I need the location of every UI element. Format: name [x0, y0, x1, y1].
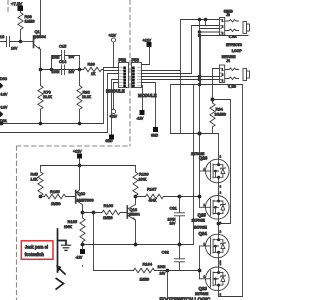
- svg-text:+12V: +12V: [143, 39, 152, 43]
- svg-text:1.5K: 1.5K: [31, 178, 39, 182]
- svg-text:Q20: Q20: [78, 191, 86, 196]
- resistor R164: [134, 262, 168, 282]
- svg-text:+12V: +12V: [73, 150, 82, 154]
- svg-text:C91: C91: [170, 206, 178, 211]
- node C14 right: [78, 68, 82, 72]
- svg-text:10V: 10V: [69, 55, 76, 59]
- node R136 Q18 R167: [134, 195, 138, 199]
- svg-text:1MEG: 1MEG: [103, 216, 113, 220]
- capacitor C91: [168, 197, 185, 245]
- svg-text:R166: R166: [104, 203, 114, 208]
- svg-text:22.1K: 22.1K: [82, 95, 92, 99]
- svg-text:R136: R136: [139, 172, 149, 177]
- zener diode D30: [0, 77, 8, 97]
- svg-text:Jack para el: Jack para el: [25, 245, 48, 250]
- wire y212 row: [83, 212, 103, 214]
- resistor R166: [102, 203, 127, 220]
- svg-text:6.8V: 6.8V: [1, 106, 9, 110]
- svg-text:1MEG: 1MEG: [51, 202, 61, 206]
- jack J3 SEND: [181, 10, 250, 39]
- wire R164 to gate node: [168, 270, 200, 272]
- wire P52 pin5 to GND: [112, 80, 119, 135]
- annotation red box footswitch: [21, 241, 53, 259]
- node bus R80: [78, 122, 82, 126]
- svg-text:GND: GND: [106, 139, 114, 143]
- resistor R45: [31, 166, 44, 197]
- svg-text:2N7002E: 2N7002E: [194, 226, 207, 230]
- svg-text:10V: 10V: [11, 47, 18, 51]
- svg-text:R69: R69: [25, 14, 33, 19]
- dashed fragment top left: [7, 0, 9, 12]
- wire base from node: [21, 41, 34, 43]
- wire Q25 source to Q24 drain: [218, 219, 220, 234]
- node Q1 base junction: [19, 40, 23, 44]
- svg-text:J3: J3: [226, 13, 230, 17]
- wire bus B y132.5: [0, 74, 119, 133]
- resistor R136: [133, 166, 149, 197]
- svg-text:100K: 100K: [64, 225, 73, 229]
- zener diode D31: [0, 106, 8, 123]
- wire J4 sleeve rail x193: [193, 85, 195, 245]
- svg-text:P52: P52: [119, 57, 127, 62]
- power +12V module: [73, 150, 82, 166]
- node rail C91 C92: [178, 243, 182, 247]
- wire Q26 source to Q25 drain: [218, 183, 220, 196]
- svg-text:C92: C92: [162, 250, 170, 255]
- svg-text:-12V: -12V: [76, 256, 84, 260]
- svg-text:16V: 16V: [170, 221, 177, 225]
- svg-text:2N7002E: 2N7002E: [192, 219, 205, 223]
- svg-text:LOOP: LOOP: [232, 49, 243, 53]
- wire R64 top to divider: [213, 100, 231, 224]
- svg-text:10V: 10V: [69, 70, 76, 74]
- power +7.5V: [11, 2, 23, 13]
- stray dot: [82, 265, 83, 266]
- wire Q24 source to Q23 drain: [218, 258, 220, 267]
- svg-text:+12V: +12V: [110, 115, 118, 119]
- node Q25 Q24 mid: [217, 222, 221, 226]
- svg-text:R165: R165: [50, 189, 60, 194]
- wire main vertical x199.5: [199, 20, 201, 279]
- svg-text:footswitch: footswitch: [25, 252, 45, 257]
- mosfet Q24 2N7002E: [194, 226, 230, 264]
- resistor R64: [210, 100, 226, 134]
- connector P52: [106, 57, 129, 93]
- power -12V module: [76, 246, 86, 259]
- svg-text:Q25: Q25: [198, 212, 207, 217]
- node +12V rail: [78, 164, 82, 168]
- transistor Q18 2N3904: [127, 197, 140, 245]
- svg-text:R167: R167: [147, 187, 157, 192]
- resistor R69: [18, 13, 35, 42]
- svg-text:10MEG: 10MEG: [215, 113, 227, 117]
- svg-text:V_IN1: V_IN1: [229, 34, 237, 38]
- svg-text:Q26: Q26: [199, 156, 208, 161]
- mosfet Q26 2N7002E: [191, 152, 229, 188]
- wire P53 pin4 to J4: [142, 76, 220, 78]
- ground square module: [106, 135, 115, 143]
- node y133.5 main: [198, 132, 202, 136]
- svg-text:6.8V: 6.8V: [1, 93, 9, 97]
- svg-text:C15: C15: [59, 44, 67, 49]
- svg-text:MODULE: MODULE: [106, 89, 125, 94]
- svg-text:MMBT3906: MMBT3906: [77, 198, 94, 202]
- svg-text:16V: 16V: [160, 272, 167, 276]
- node Q20 collector R135: [81, 211, 85, 215]
- svg-text:C14: C14: [59, 59, 67, 64]
- node footswitch line: [92, 211, 96, 215]
- svg-text:Q24: Q24: [199, 231, 208, 236]
- wire Q1 emitter down: [40, 50, 42, 70]
- node gate tie upper: [198, 195, 202, 199]
- connector P53: [132, 57, 157, 98]
- svg-text:2N3904: 2N3904: [34, 35, 46, 39]
- node C14 left: [50, 68, 54, 72]
- svg-text:2N3904: 2N3904: [129, 212, 140, 216]
- footswitch arrowhead: [56, 265, 62, 271]
- node C91 top: [178, 195, 182, 199]
- svg-text:R164: R164: [143, 262, 153, 267]
- resistor R165: [41, 189, 76, 206]
- svg-text:EFFECTS: EFFECTS: [226, 43, 243, 47]
- node R45 R165: [39, 195, 43, 199]
- svg-text:R99: R99: [88, 62, 96, 67]
- capacitor C15: [52, 44, 80, 70]
- capacitor C13: [0, 34, 21, 51]
- ground square P53: [151, 127, 159, 138]
- mosfet Q23 2N7002E: [195, 262, 229, 296]
- svg-text:2N7002E: 2N7002E: [195, 292, 208, 296]
- wire P52 pin7 to terminal: [114, 83, 119, 110]
- terminal +12V circle P52: [109, 34, 117, 68]
- svg-text:464K: 464K: [149, 199, 158, 203]
- node bus D31: [0, 122, 3, 126]
- wire Q1 collector to top edge: [40, 0, 42, 35]
- svg-text:1MEG: 1MEG: [25, 20, 35, 24]
- wire footswitch column: [94, 213, 134, 271]
- wire Q23 source loop: [219, 291, 243, 297]
- capacitor C92: [158, 245, 185, 276]
- svg-text:R64: R64: [216, 107, 224, 112]
- node gate tie lower: [198, 269, 202, 273]
- node bus R79: [39, 122, 43, 126]
- node rail Q18: [134, 243, 138, 247]
- wire bottom rail y244.5: [83, 244, 194, 246]
- svg-text:P53: P53: [132, 57, 140, 62]
- wire y133.5 to Q26 drain: [171, 134, 219, 160]
- resistor R79: [38, 70, 53, 124]
- node emitter rail: [39, 68, 43, 72]
- terminal circle module: [110, 109, 118, 118]
- power +12V square P53: [142, 39, 152, 65]
- svg-text:R79: R79: [44, 90, 52, 95]
- wire P53 pin3 up to J3: [142, 26, 192, 74]
- wire P53 pin7 to -12V: [142, 86, 143, 110]
- svg-text:Q23: Q23: [199, 286, 208, 291]
- svg-text:J4: J4: [226, 59, 230, 63]
- svg-text:D30: D30: [0, 77, 7, 81]
- node R64 top: [211, 98, 215, 102]
- wire rail to gate node: [180, 196, 200, 198]
- wire bus A y123: [0, 71, 119, 124]
- wire P53 pin2 up to J3: [142, 20, 181, 134]
- dashed module box top: [17, 145, 131, 147]
- transistor Q20 MMBT3906: [75, 166, 93, 213]
- svg-text:+12V: +12V: [109, 34, 117, 38]
- svg-text:MODULE: MODULE: [138, 93, 157, 98]
- svg-text:GND: GND: [151, 134, 159, 138]
- jack J4 RETURN: [171, 38, 250, 297]
- text EFFECTS LOOP: [226, 43, 243, 53]
- svg-text:R80: R80: [83, 90, 91, 95]
- svg-text:1MEG: 1MEG: [140, 278, 150, 282]
- capacitor C14: [52, 59, 76, 75]
- resistor R135: [64, 213, 85, 245]
- svg-text:100K: 100K: [139, 177, 148, 181]
- power -12V square P53: [137, 110, 145, 121]
- footswitch jack symbol: [56, 229, 66, 289]
- svg-text:R45: R45: [31, 172, 39, 177]
- svg-text:Q1: Q1: [35, 29, 41, 34]
- wire P53 pin6 to GND: [142, 83, 156, 128]
- svg-text:100N: 100N: [52, 70, 61, 74]
- wire rail y69: [41, 69, 84, 71]
- svg-text:Q18: Q18: [130, 207, 138, 212]
- svg-text:-12V: -12V: [137, 117, 145, 121]
- node rail R135: [81, 243, 85, 247]
- node R164 C92 tap: [166, 269, 170, 273]
- svg-text:V_IN0: V_IN0: [228, 85, 236, 89]
- svg-text:22.1K: 22.1K: [43, 95, 53, 99]
- dashed module separator x130: [129, 0, 131, 146]
- resistor R80: [77, 70, 92, 124]
- svg-text:R135: R135: [68, 219, 78, 224]
- resistor R167: [136, 187, 180, 203]
- transistor Q1 2N3904: [34, 29, 46, 50]
- ground earth symbol: [62, 245, 71, 250]
- wire P53 pin5 to J4: [142, 79, 220, 81]
- dashed module box left: [16, 146, 18, 300]
- svg-text:100N: 100N: [158, 265, 167, 269]
- resistor R99: [84, 62, 119, 76]
- wire tap down to edge: [167, 271, 169, 300]
- svg-text:1K: 1K: [91, 72, 96, 76]
- mosfet Q25 2N7002E: [192, 191, 230, 225]
- wire rail +12V y165.5: [41, 165, 136, 167]
